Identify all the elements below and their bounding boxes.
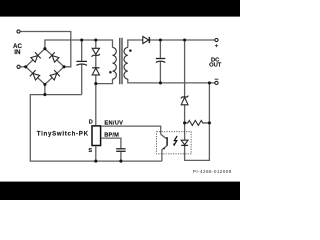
svg-text:PI-4266-012009: PI-4266-012009: [193, 169, 232, 174]
svg-text:IN: IN: [14, 49, 21, 56]
svg-text:BP/M: BP/M: [104, 133, 119, 139]
svg-text:OUT: OUT: [209, 62, 222, 68]
svg-text:D: D: [89, 120, 93, 126]
svg-text:S: S: [88, 148, 92, 154]
svg-text:EN/UV: EN/UV: [104, 121, 123, 127]
svg-text:TinySwitch-PK: TinySwitch-PK: [37, 131, 89, 138]
